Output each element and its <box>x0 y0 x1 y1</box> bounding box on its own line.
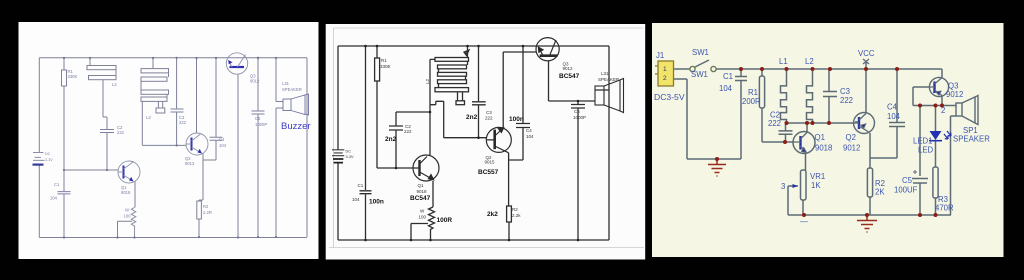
svg-text:R1: R1 <box>748 88 758 97</box>
svg-text:222: 222 <box>117 130 125 135</box>
svg-text:L2: L2 <box>425 78 430 84</box>
svg-text:2K: 2K <box>875 188 885 197</box>
svg-text:L31: L31 <box>601 71 609 76</box>
svg-text:104: 104 <box>352 197 360 202</box>
svg-text:100n: 100n <box>369 199 384 206</box>
svg-text:9018: 9018 <box>417 189 428 194</box>
svg-text:BC547: BC547 <box>410 195 431 202</box>
svg-text:C4: C4 <box>887 103 898 112</box>
svg-text:9012: 9012 <box>250 79 260 84</box>
svg-text:222: 222 <box>768 119 781 128</box>
svg-text:9012: 9012 <box>843 144 860 153</box>
svg-text:C4: C4 <box>219 137 225 142</box>
svg-text:C1: C1 <box>54 182 60 187</box>
svg-text:9015: 9015 <box>485 160 496 165</box>
svg-text:9018: 9018 <box>815 144 832 153</box>
svg-text:222: 222 <box>485 116 493 121</box>
svg-text:SPEAKER: SPEAKER <box>282 87 302 92</box>
svg-text:100: 100 <box>419 215 427 220</box>
svg-text:C3: C3 <box>486 110 492 115</box>
svg-text:3: 3 <box>781 182 785 191</box>
svg-text:LED: LED <box>918 146 934 155</box>
svg-text:9018: 9018 <box>121 190 131 195</box>
svg-text:100: 100 <box>124 213 132 218</box>
svg-text:104: 104 <box>719 84 733 93</box>
svg-text:100R: 100R <box>437 217 453 224</box>
svg-text:C1: C1 <box>723 72 733 81</box>
svg-text:VR1: VR1 <box>810 172 825 181</box>
svg-text:Q1: Q1 <box>418 183 425 188</box>
svg-text:222: 222 <box>404 129 412 134</box>
svg-text:200R: 200R <box>742 97 761 106</box>
svg-text:LED1: LED1 <box>913 137 933 146</box>
svg-text:1K: 1K <box>811 181 821 190</box>
svg-text:SW1: SW1 <box>692 48 709 57</box>
svg-text:2: 2 <box>663 75 667 82</box>
svg-text:104: 104 <box>526 134 534 139</box>
svg-text:DC3-5V: DC3-5V <box>654 92 685 102</box>
svg-text:—: — <box>800 217 808 226</box>
svg-text:DC: DC <box>346 150 352 154</box>
svg-text:R2: R2 <box>512 207 518 212</box>
svg-text:222: 222 <box>840 96 853 105</box>
svg-text:3-3V: 3-3V <box>45 158 53 162</box>
svg-text:330K: 330K <box>68 74 78 79</box>
svg-text:2: 2 <box>941 106 945 115</box>
svg-text:L31: L31 <box>282 81 290 86</box>
svg-text:2.2k: 2.2k <box>512 213 521 218</box>
svg-text:L2: L2 <box>805 57 814 66</box>
svg-text:W: W <box>125 208 129 213</box>
svg-text:104: 104 <box>219 143 227 148</box>
svg-text:BC557: BC557 <box>478 169 499 176</box>
svg-text:2k2: 2k2 <box>487 211 498 218</box>
svg-text:100n: 100n <box>509 116 524 123</box>
svg-text:SW1: SW1 <box>691 70 708 79</box>
svg-text:DC: DC <box>45 152 51 156</box>
svg-text:J1: J1 <box>656 51 664 60</box>
svg-text:C3: C3 <box>840 87 850 96</box>
svg-text:C6: C6 <box>574 109 580 114</box>
svg-text:100UF: 100UF <box>894 186 918 195</box>
svg-text:L2: L2 <box>112 82 117 87</box>
svg-text:L1: L1 <box>779 57 788 66</box>
svg-text:R1: R1 <box>381 58 387 63</box>
svg-text:SPEAKER: SPEAKER <box>598 77 620 82</box>
svg-text:9012: 9012 <box>563 66 574 71</box>
svg-text:C5: C5 <box>902 176 913 185</box>
svg-text:104: 104 <box>50 196 58 201</box>
svg-text:9013: 9013 <box>185 161 195 166</box>
svg-text:BC547: BC547 <box>559 73 580 80</box>
svg-text:104: 104 <box>887 112 901 121</box>
svg-text:9012: 9012 <box>946 90 963 99</box>
svg-text:1: 1 <box>663 66 667 73</box>
svg-text:1000P: 1000P <box>573 115 586 120</box>
svg-text:SPEAKER: SPEAKER <box>953 135 990 144</box>
svg-text:2.2R: 2.2R <box>203 210 212 215</box>
svg-text:Q1: Q1 <box>815 133 825 142</box>
svg-text:R2: R2 <box>203 204 209 209</box>
svg-text:C1: C1 <box>358 183 364 188</box>
svg-text:2n2: 2n2 <box>466 114 478 121</box>
svg-text:C4: C4 <box>526 128 532 133</box>
svg-text:Q2: Q2 <box>846 133 856 142</box>
svg-text:L3: L3 <box>146 115 151 120</box>
svg-text:VCC: VCC <box>858 49 875 58</box>
svg-text:C6: C6 <box>255 116 261 121</box>
svg-text:470R: 470R <box>935 204 954 213</box>
svg-text:330E: 330E <box>380 64 391 69</box>
svg-text:222: 222 <box>179 120 187 125</box>
svg-text:1000P: 1000P <box>255 122 267 127</box>
svg-text:3-3V: 3-3V <box>346 155 354 159</box>
svg-text:Buzzer: Buzzer <box>281 121 311 132</box>
svg-text:2n2: 2n2 <box>385 136 397 143</box>
